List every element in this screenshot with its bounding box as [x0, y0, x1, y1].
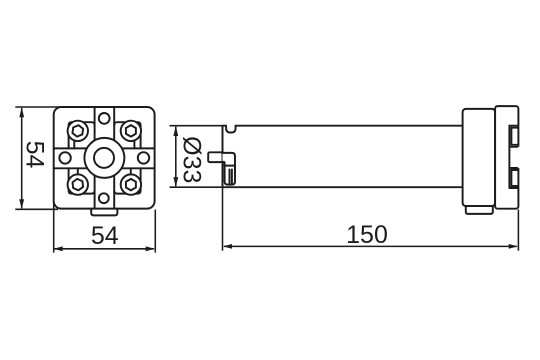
arrow 150 left: [223, 244, 232, 249]
dim 150: extension right: [517, 210, 519, 251]
hex screw bottom-right circle: [121, 174, 141, 194]
hex screw top-left hexagon: [72, 125, 83, 138]
svg-text:54: 54: [91, 222, 119, 250]
spring clip inner line: [225, 165, 235, 167]
tube bottom edge: [223, 186, 463, 188]
small hole left: [59, 152, 70, 163]
horizontal band bottom edge: [54, 167, 155, 169]
head clip top: inner top arm: [511, 127, 517, 129]
dim diam33: extension bottom: [170, 186, 223, 188]
pad bottom-left: [69, 168, 95, 193]
dim 150: extension left: [222, 188, 224, 251]
small hole right: [138, 152, 149, 163]
dim 54 left: dimension line: [21, 108, 23, 208]
central hole: [94, 148, 114, 168]
dim 54 left: extension bottom: [15, 208, 58, 210]
head right edge slot gap (erase): [517, 148, 520, 166]
hex screw bottom-left hexagon: [72, 178, 83, 190]
dim diam33: dimension line: [175, 127, 177, 187]
tube top notch: [226, 126, 236, 133]
svg-text:Ø33: Ø33: [178, 136, 206, 183]
head block: [495, 106, 518, 209]
dim 54 bottom: dimension line: [55, 248, 154, 250]
arrow diam33 bottom: [173, 177, 178, 187]
svg-text:150: 150: [346, 221, 388, 249]
vertical band right edge: [113, 107, 115, 209]
dim 54 left: extension top: [15, 106, 62, 108]
hex screw bottom-left circle: [68, 174, 88, 194]
horizontal band top edge: [54, 147, 155, 149]
drive stub: [208, 152, 222, 162]
vertical band left edge: [94, 107, 96, 209]
dim 150: dimension line: [224, 245, 517, 247]
spring clip at tube left: [223, 153, 236, 185]
head clip top: inner wall: [510, 128, 512, 145]
pad top-left stub: [73, 140, 75, 149]
hex screw top-right hexagon: [126, 125, 136, 136]
head clip bottom: outer bottom arm: [509, 187, 517, 189]
bottom tab of flange: [91, 209, 117, 216]
arrow 54 left bottom: [19, 199, 24, 209]
head slot left edge: [508, 126, 510, 188]
small hole top: [99, 113, 110, 124]
head clip bottom: inner bottom arm: [511, 185, 517, 187]
arrow 54 bottom left: [54, 246, 63, 251]
front view flange outline 54x54: [54, 107, 155, 209]
arrow 54 bottom right: [146, 246, 155, 251]
head clip bottom: inner top arm: [511, 169, 517, 171]
dim diam33: extension top: [170, 125, 223, 127]
pad top-left: [69, 122, 95, 148]
head clip top: outer bottom arm: [509, 146, 517, 148]
arrow diam33 top: [173, 126, 178, 136]
arrow 150 right: [509, 244, 518, 249]
arrow 54 left top: [19, 107, 24, 117]
central boss circle: [84, 138, 124, 178]
spring clip pin: [230, 170, 232, 184]
end cap bottom tab: [466, 206, 493, 214]
tube top edge: [223, 125, 463, 127]
pad bottom-left stub: [77, 168, 79, 175]
tube left cap: [222, 126, 224, 188]
head clip bottom: outer top arm: [509, 167, 517, 169]
dim 54 bottom: extension right: [154, 210, 156, 253]
hex screw top-left circle: [68, 121, 88, 141]
svg-text:54: 54: [20, 141, 48, 169]
head clip top: inner bottom arm: [511, 144, 517, 146]
dim 54 bottom: extension left: [53, 200, 55, 253]
pad bottom-right stub: [130, 168, 132, 175]
small hole bottom: [99, 193, 109, 203]
bearing end cap block: [463, 109, 496, 206]
hex screw bottom-right hexagon: [126, 179, 136, 191]
pad top-right: [114, 122, 140, 148]
hex screw top-right circle: [121, 121, 141, 141]
pad top-right stub: [133, 140, 135, 149]
pad bottom-right: [114, 168, 140, 193]
head clip top: outer top arm: [509, 125, 517, 127]
head clip bottom: inner wall: [510, 170, 512, 186]
